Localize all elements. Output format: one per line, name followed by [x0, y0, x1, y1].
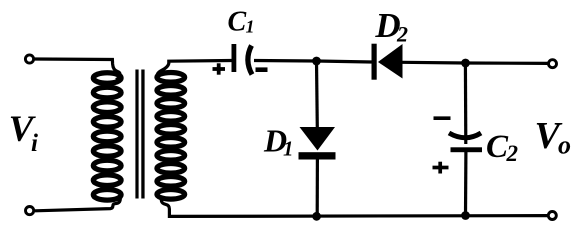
svg-text:o: o: [558, 131, 571, 160]
svg-text:i: i: [31, 130, 38, 157]
svg-text:2: 2: [396, 22, 408, 47]
svg-text:C: C: [228, 6, 247, 37]
svg-text:1: 1: [246, 17, 255, 37]
svg-text:1: 1: [283, 137, 294, 161]
svg-text:2: 2: [506, 141, 519, 166]
